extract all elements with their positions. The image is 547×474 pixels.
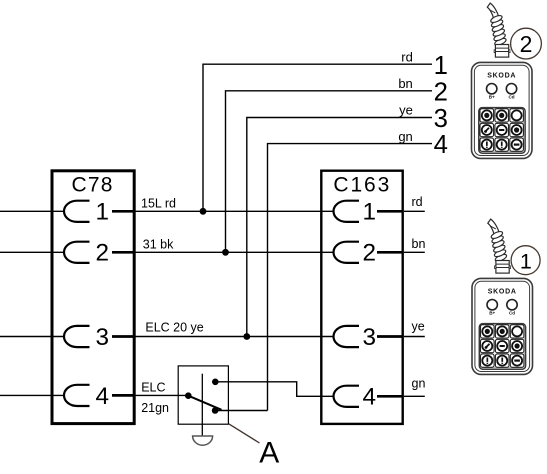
svg-text:ye: ye xyxy=(399,103,413,118)
svg-text:2: 2 xyxy=(434,78,448,106)
svg-text:4: 4 xyxy=(363,384,377,411)
svg-text:C163: C163 xyxy=(333,173,391,196)
svg-text:bn: bn xyxy=(412,237,426,251)
svg-text:gn: gn xyxy=(412,376,426,390)
svg-text:2: 2 xyxy=(363,240,377,267)
svg-text:1: 1 xyxy=(520,249,532,273)
svg-text:21gn: 21gn xyxy=(141,401,169,415)
svg-text:bn: bn xyxy=(398,76,412,91)
svg-text:ELC: ELC xyxy=(141,381,165,395)
svg-text:1: 1 xyxy=(434,52,448,80)
svg-text:C78: C78 xyxy=(72,174,114,197)
svg-text:2: 2 xyxy=(520,31,533,57)
svg-text:1: 1 xyxy=(96,199,110,226)
svg-text:rd: rd xyxy=(412,195,423,209)
svg-text:gn: gn xyxy=(398,129,412,144)
svg-text:15L rd: 15L rd xyxy=(141,196,176,210)
svg-text:ye: ye xyxy=(412,320,425,334)
svg-text:rd: rd xyxy=(401,49,413,64)
svg-text:1: 1 xyxy=(363,199,377,226)
svg-text:3: 3 xyxy=(96,324,110,351)
svg-text:4: 4 xyxy=(96,383,110,410)
svg-text:A: A xyxy=(259,437,279,470)
svg-text:4: 4 xyxy=(434,131,448,159)
svg-text:31 bk: 31 bk xyxy=(143,237,174,251)
svg-text:3: 3 xyxy=(363,324,377,351)
svg-text:2: 2 xyxy=(96,240,110,267)
svg-text:ELC 20 ye: ELC 20 ye xyxy=(145,321,203,335)
svg-text:3: 3 xyxy=(434,105,448,133)
